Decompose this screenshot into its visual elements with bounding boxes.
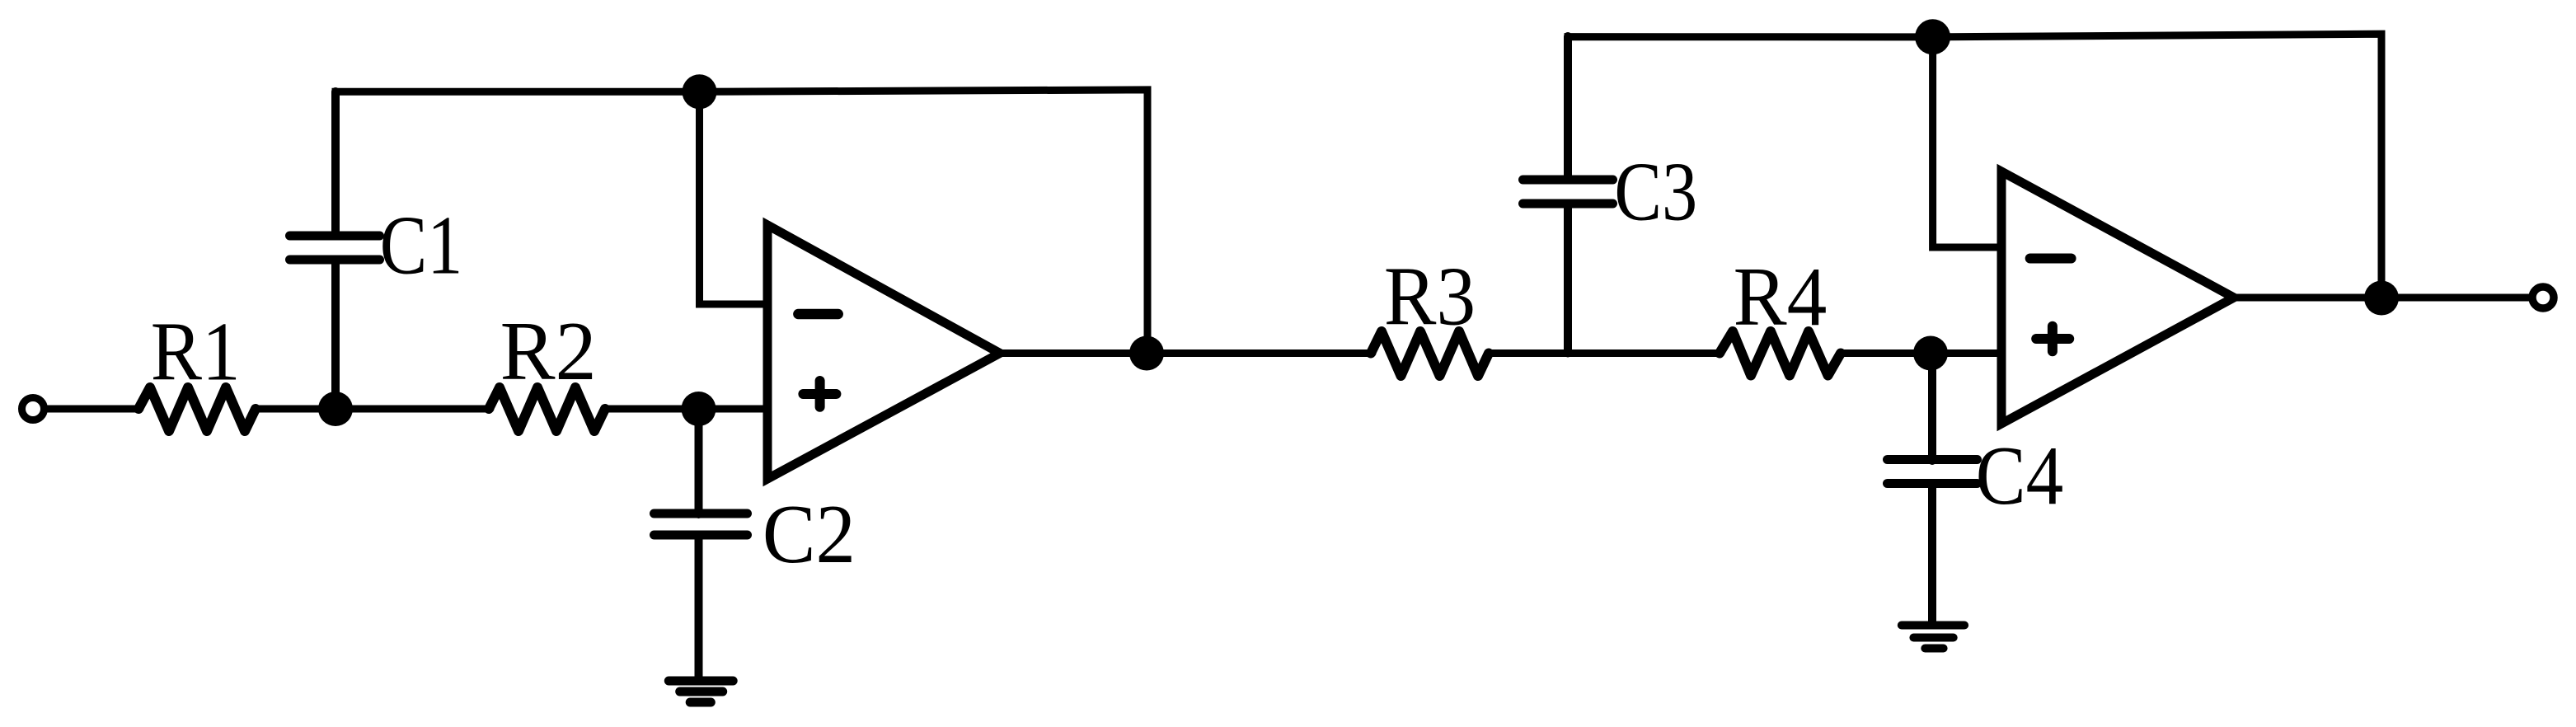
node output dot U2 [2364,281,2399,316]
label R2 [500,304,597,397]
U2 non-inverting pin plus [2036,326,2069,352]
label C3 [1614,146,1697,238]
svg-text:C4: C4 [1976,429,2063,522]
resistor R3 [1371,331,1489,376]
wire to inverting input op-amp U1 [700,91,768,304]
output terminal [2532,287,2554,308]
capacitor C2 [655,514,748,535]
op-amp U1 [767,225,1000,479]
resistor R2 [489,387,605,431]
ground 2 [1902,626,1964,649]
wire U1 output [1000,349,1372,357]
resistor R4 [1720,331,1841,376]
wire C3 upper lead [1564,36,1572,179]
U2 inverting pin minus [2030,254,2072,264]
node dot on top wire stage 2 [1915,19,1950,54]
wire R4 to non-inverting input U2 [1841,349,2001,357]
label C4 [1976,429,2063,522]
capacitor C3 [1523,180,1613,204]
svg-text:R3: R3 [1384,251,1476,344]
label C2 [762,487,856,581]
capacitor C4 [1888,460,1978,484]
svg-text:R2: R2 [500,304,597,397]
wire C1 upper lead [331,91,340,235]
svg-text:C3: C3 [1614,146,1697,238]
label R3 [1384,251,1476,344]
input terminal [22,398,45,420]
label R4 [1734,250,1828,344]
resistor R1 [138,387,256,431]
wire C2 to ground [695,536,703,681]
wire feedback top stage 1 [335,90,1147,353]
wire to inverting input op-amp U2 [1933,37,2001,247]
ground 1 [669,681,733,702]
node junction dot B [682,392,716,426]
node junction dot A [318,392,353,426]
svg-text:C1: C1 [380,199,463,292]
node output dot U1 [1129,336,1164,371]
wire C4 to ground [1928,485,1936,625]
wire C4 upper lead [1928,354,1936,462]
op-amp U2 [2001,171,2234,424]
wire C3 lower lead [1564,204,1572,354]
svg-text:R4: R4 [1734,250,1828,344]
label R1 [151,306,241,399]
svg-text:C2: C2 [762,487,856,581]
wire U2 output [2234,294,2529,302]
wire R2 to non-inverting input U1 [605,406,767,413]
node dot on top wire stage 1 [683,74,717,109]
wire input to R1 [47,406,140,413]
U1 non-inverting pin plus [803,381,836,407]
wire R1 to R2 [256,406,490,413]
U1 inverting pin minus [798,309,838,320]
wire R3 to R4 [1489,349,1721,357]
wire C2 upper lead [695,409,703,514]
node junction dot C [1913,336,1948,371]
capacitor C1 [290,236,380,260]
svg-text:R1: R1 [151,306,241,399]
wire C1 lower lead [331,260,340,409]
label C1 [380,199,463,292]
wire feedback top stage 2 [1568,34,2381,298]
